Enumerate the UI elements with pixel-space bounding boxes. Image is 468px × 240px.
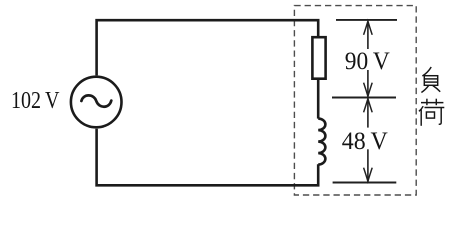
- 48V arrowhead up: [364, 99, 373, 113]
- AC source sine symbol: [81, 95, 111, 106]
- wire top: source top to right branch: [97, 20, 319, 75]
- 48V arrow shaft upper: [367, 99, 369, 128]
- AC source V1 circle: [71, 77, 122, 128]
- 90V arrowhead down: [364, 83, 373, 97]
- resistor R (rectangle): [312, 37, 325, 78]
- load label kanji FU (negative/load) drawn as strokes: [421, 67, 440, 93]
- dashed load boundary box: [294, 6, 416, 195]
- 90V arrowhead up: [364, 21, 373, 35]
- 90V arrow shaft upper: [367, 21, 369, 49]
- bottom dimension tick: [333, 182, 397, 184]
- 90V arrow shaft lower: [367, 70, 369, 96]
- wire bottom: source bottom to inductor bottom: [97, 129, 319, 186]
- 48V arrow shaft lower: [367, 149, 369, 181]
- svg-text:90 V: 90 V: [345, 48, 390, 75]
- inductor L (4 arcs): [318, 119, 325, 165]
- middle dimension tick: [332, 97, 396, 99]
- svg-text:102 V: 102 V: [11, 87, 60, 114]
- wire between resistor and inductor: [317, 79, 320, 119]
- 48V arrowhead down: [364, 168, 373, 182]
- load label kanji KA (load) drawn as strokes: [419, 99, 444, 126]
- svg-text:48 V: 48 V: [342, 128, 388, 155]
- top dimension tick: [336, 19, 397, 21]
